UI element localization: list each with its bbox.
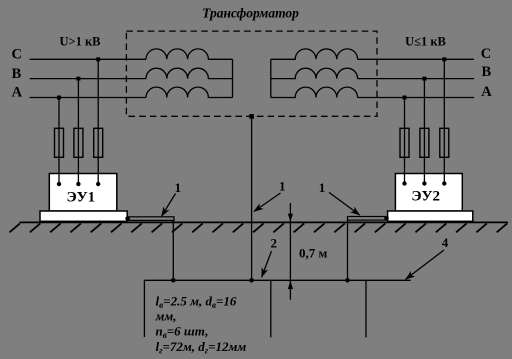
- wire phase B right: [358, 78, 474, 80]
- fuse right 3: [440, 128, 449, 157]
- svg-text:U>1 кВ: U>1 кВ: [59, 35, 100, 49]
- fuse right 2: [420, 128, 429, 157]
- leader arrow 1 right: [329, 192, 360, 215]
- primary winding B (transformer): [146, 68, 233, 78]
- wire phase C left: [30, 58, 146, 60]
- svg-text:1: 1: [319, 180, 326, 195]
- vertical electrode 2: [270, 280, 272, 337]
- junction dot buried conductor right: [345, 278, 350, 283]
- svg-text:C: C: [481, 46, 491, 62]
- svg-text:A: A: [12, 85, 23, 101]
- base slab ЭУ1: [40, 211, 127, 221]
- junction dot phase A right: [403, 96, 407, 100]
- buried horizontal grounding conductor (item 4): [144, 279, 410, 281]
- junction dot strip to slab ЭУ2: [384, 216, 389, 221]
- grounding strip conductor right (item 1): [348, 217, 387, 221]
- junction dot strip to slab ЭУ1: [125, 216, 130, 221]
- wire down conductor from left strip: [172, 220, 174, 280]
- base slab ЭУ2: [388, 211, 473, 221]
- secondary winding C (transformer): [271, 49, 358, 59]
- dimension arrowhead down at ground: [288, 214, 293, 222]
- junction dot phase A left: [57, 96, 61, 100]
- svg-text:ЭУ2: ЭУ2: [411, 189, 440, 205]
- svg-text:мм,: мм,: [155, 309, 177, 324]
- fuse left 1: [55, 128, 64, 157]
- wire drop phase C right to fuse: [443, 59, 445, 183]
- wire drop phase A right to fuse: [404, 98, 406, 184]
- wire neutral grounding conductor from transformer: [251, 116, 253, 280]
- wire drop phase B left to fuse: [77, 79, 79, 184]
- wire phase A right: [358, 97, 474, 99]
- vertical electrode 3: [365, 280, 367, 337]
- junction dot phase C left: [96, 57, 100, 61]
- grounding strip conductor left (item 1): [129, 217, 174, 221]
- wire down conductor from right strip: [347, 220, 349, 280]
- secondary winding B (transformer): [271, 68, 358, 78]
- terminal dots ЭУ1: [57, 182, 61, 186]
- wire drop phase C left to fuse: [97, 59, 99, 184]
- ground surface hatching: [10, 223, 508, 232]
- svg-text:ЭУ1: ЭУ1: [66, 190, 95, 206]
- box ЭУ1 (electrical installation 1): [49, 174, 117, 212]
- svg-text:2: 2: [270, 235, 277, 250]
- dimension arrowhead up at conductor: [288, 281, 293, 289]
- svg-text:0,7 м: 0,7 м: [299, 246, 328, 261]
- svg-text:C: C: [11, 47, 21, 63]
- leader arrow 1 center: [254, 193, 281, 212]
- wire phase C right: [358, 58, 474, 60]
- wire secondary star point connector: [270, 59, 272, 97]
- svg-text:4: 4: [442, 235, 449, 250]
- svg-text:A: A: [481, 84, 492, 100]
- svg-text:B: B: [481, 64, 491, 80]
- junction square neutral at transformer box: [249, 114, 254, 119]
- wire primary star point connector: [232, 59, 234, 97]
- junction dot phase B left: [76, 77, 80, 81]
- junction dot phase B right: [422, 77, 426, 81]
- dimension line 0,7 м: [289, 203, 291, 300]
- secondary winding A (transformer): [271, 87, 358, 97]
- primary winding A (transformer): [146, 87, 233, 97]
- vertical electrode 1 (item 2): [143, 280, 145, 337]
- leader arrow 1 left: [162, 194, 176, 217]
- svg-text:lг=72м, dг=12мм: lг=72м, dг=12мм: [156, 339, 247, 356]
- primary winding C (transformer): [146, 49, 233, 59]
- leader arrow 4: [406, 250, 445, 279]
- transformer T1 dashed enclosure: [126, 31, 377, 116]
- box ЭУ2 (electrical installation 2): [395, 174, 462, 212]
- svg-text:Трансформатор: Трансформатор: [202, 6, 299, 21]
- wire drop phase A left to fuse: [58, 98, 60, 185]
- svg-text:1: 1: [279, 179, 286, 194]
- junction dot buried conductor left: [171, 278, 176, 283]
- junction dot phase C right: [442, 57, 446, 61]
- fuse left 2: [74, 128, 83, 157]
- terminal dots ЭУ2: [402, 181, 406, 185]
- wire phase B left: [30, 78, 146, 80]
- leader arrow 2: [262, 251, 272, 277]
- fuse right 1: [400, 128, 409, 157]
- svg-text:B: B: [12, 66, 22, 82]
- svg-text:1: 1: [175, 180, 182, 195]
- svg-text:U≤1 кВ: U≤1 кВ: [405, 35, 446, 49]
- ground surface line: [20, 221, 509, 223]
- wire phase A left: [30, 97, 146, 99]
- wire drop phase B right to fuse: [423, 79, 425, 184]
- fuse left 3: [94, 128, 103, 157]
- junction dot buried conductor neutral: [249, 278, 254, 283]
